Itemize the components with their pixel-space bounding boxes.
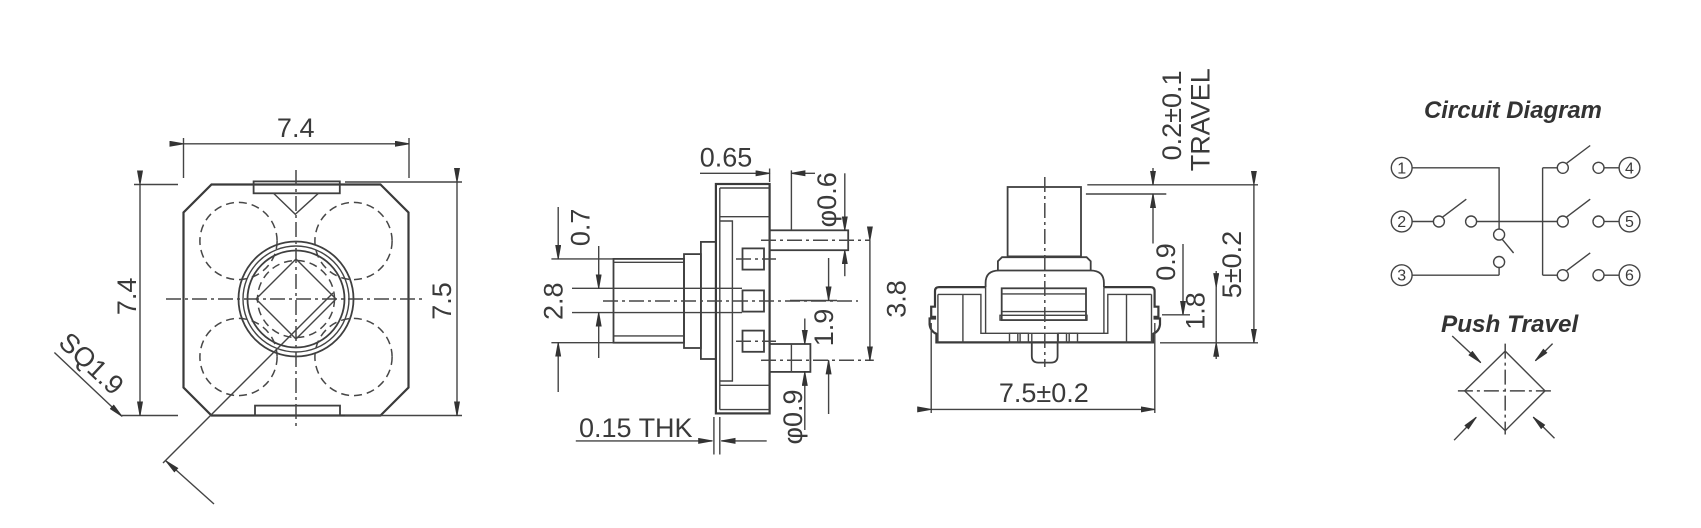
svg-text:Push Travel: Push Travel (1441, 311, 1580, 338)
svg-text:Circuit Diagram: Circuit Diagram (1424, 97, 1602, 124)
svg-text:0.2±0.1: 0.2±0.1 (1157, 70, 1187, 160)
svg-text:4: 4 (1625, 160, 1634, 177)
svg-text:2.8: 2.8 (538, 282, 568, 320)
svg-text:3.8: 3.8 (882, 280, 912, 318)
svg-text:φ0.9: φ0.9 (778, 389, 808, 444)
svg-text:7.4: 7.4 (277, 113, 315, 143)
svg-text:1: 1 (1397, 160, 1406, 177)
svg-text:3: 3 (1397, 268, 1406, 285)
svg-text:2: 2 (1397, 214, 1406, 231)
svg-text:0.65: 0.65 (700, 143, 753, 173)
svg-text:0.7: 0.7 (566, 209, 596, 247)
svg-text:φ0.6: φ0.6 (812, 172, 842, 227)
svg-text:5: 5 (1625, 214, 1634, 231)
svg-text:6: 6 (1625, 268, 1634, 285)
svg-text:5±0.2: 5±0.2 (1217, 231, 1247, 298)
svg-text:0.9: 0.9 (1151, 243, 1181, 281)
svg-text:0.15 THK: 0.15 THK (579, 413, 693, 443)
svg-text:7.5: 7.5 (427, 282, 457, 320)
svg-text:TRAVEL: TRAVEL (1186, 68, 1216, 171)
svg-text:1.8: 1.8 (1181, 292, 1211, 330)
svg-text:7.5±0.2: 7.5±0.2 (999, 378, 1089, 408)
svg-text:7.4: 7.4 (112, 278, 142, 316)
svg-text:1.9: 1.9 (809, 309, 839, 347)
